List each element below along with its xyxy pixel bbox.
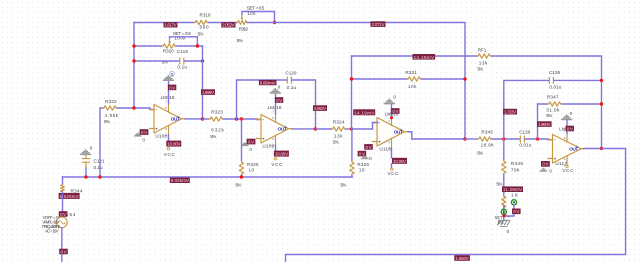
wire right rail x=202.5 down to U108 output bbox=[202, 46, 204, 119]
svg-text:79k: 79k bbox=[511, 167, 520, 172]
svg-text:5%: 5% bbox=[198, 32, 204, 37]
wire U108 out to R323 bbox=[203, 118, 210, 120]
wire R325 to input rail bbox=[241, 175, 243, 177]
svg-text:C128: C128 bbox=[549, 70, 560, 75]
svg-text:0V: 0V bbox=[248, 139, 254, 144]
voltage label 2.071V bbox=[371, 21, 386, 27]
svg-text:RF1: RF1 bbox=[478, 47, 487, 52]
junction U109 output node bbox=[314, 127, 317, 130]
svg-text:R319: R319 bbox=[239, 26, 248, 31]
svg-text:OUT: OUT bbox=[171, 117, 180, 123]
voltage label 9.025mV on input rail bbox=[170, 178, 190, 184]
svg-text:R347: R347 bbox=[547, 95, 559, 100]
junction C128 on output rail bbox=[600, 79, 603, 82]
wire U109 output to node bbox=[292, 128, 316, 130]
node 0V badge at U108 plus input bbox=[134, 129, 149, 142]
ground 0 above U117 bbox=[561, 111, 573, 120]
resistor R321 10k bbox=[405, 70, 421, 89]
wire R321 to U110 output rail bbox=[422, 78, 466, 80]
svg-text:1K: 1K bbox=[511, 192, 519, 197]
svg-text:13k: 13k bbox=[479, 61, 488, 66]
junction C121 on input rail bbox=[84, 175, 87, 178]
wire R326 to input rail end bbox=[351, 175, 353, 177]
resistor R326 10 bbox=[340, 161, 369, 188]
svg-text:4.95k: 4.95k bbox=[105, 113, 119, 118]
svg-text:R325: R325 bbox=[247, 162, 259, 167]
svg-text:SET = 0.5: SET = 0.5 bbox=[247, 6, 265, 11]
svg-text:5%: 5% bbox=[477, 67, 483, 72]
wire top net from left rail to R318 bbox=[134, 22, 194, 24]
wire RF1 row left segment bbox=[352, 55, 478, 57]
ground 0 above U110 bbox=[384, 94, 397, 104]
svg-text:0: 0 bbox=[393, 94, 396, 99]
wire R322 input vertical from rail bbox=[100, 108, 103, 177]
voltage label 10.00V at U110 VCC bbox=[392, 158, 407, 164]
junction summing node bbox=[350, 127, 353, 130]
svg-text:0: 0 bbox=[90, 145, 93, 150]
svg-text:13k: 13k bbox=[334, 134, 343, 139]
svg-text:0V: 0V bbox=[276, 98, 282, 103]
svg-text:SET: SET bbox=[495, 215, 503, 220]
node 0V badge on U117 V+ bbox=[566, 126, 574, 132]
voltage label 14.19mV at summing node bbox=[353, 109, 375, 115]
junction C120 feedback tap bbox=[235, 117, 238, 120]
voltage label 10.00V at U109 VCC bbox=[274, 151, 289, 157]
svg-text:0V: 0V bbox=[513, 209, 519, 214]
svg-text:OUT: OUT bbox=[394, 130, 403, 136]
voltage label 9.025mV at source bbox=[59, 193, 80, 199]
wire U109 out to R324 bbox=[316, 128, 332, 130]
wire C119 row right segment bbox=[185, 60, 203, 62]
wire C119 row left segment bbox=[134, 60, 179, 62]
node 0V badge on U109 V+ bbox=[275, 97, 283, 103]
ground earth below pot bbox=[498, 220, 511, 234]
junction R325 tap bbox=[240, 117, 243, 120]
svg-text:LM318: LM318 bbox=[268, 105, 282, 110]
voltage label 11.28mV bbox=[502, 186, 523, 192]
svg-text:C121: C121 bbox=[94, 158, 105, 163]
svg-text:OUT: OUT bbox=[569, 147, 578, 153]
voltage label 1.960V on bottom output wire bbox=[454, 255, 470, 261]
svg-text:14.19mV: 14.19mV bbox=[354, 110, 374, 115]
ground 0 above C121 bbox=[80, 145, 93, 155]
wire U117 output to rail junction bbox=[584, 148, 602, 150]
junction left rail / input node bbox=[132, 106, 135, 109]
voltage source V154 sine bbox=[56, 217, 67, 228]
node 0V badge below source bbox=[59, 249, 68, 255]
voltage label 10.00V at U108 VCC bbox=[166, 141, 181, 147]
junction left rail / C119 row bbox=[132, 59, 135, 62]
wire R323 to U109 minus input bbox=[224, 118, 262, 121]
svg-text:0V: 0V bbox=[169, 85, 175, 90]
wire R320 wiper loop bbox=[170, 37, 198, 46]
svg-text:0V: 0V bbox=[392, 109, 398, 114]
svg-text:5%: 5% bbox=[496, 181, 502, 186]
svg-text:R345: R345 bbox=[481, 130, 493, 135]
svg-text:R318: R318 bbox=[200, 12, 211, 17]
svg-text:0.01u: 0.01u bbox=[519, 143, 531, 148]
junction wiper-return on top net bbox=[273, 21, 276, 24]
op-amp U108 LM318 bbox=[149, 95, 186, 139]
voltage label 1.969V bbox=[201, 89, 215, 95]
node 0V badge at pot wiper bbox=[512, 209, 521, 215]
resistor R323 632k bbox=[209, 109, 225, 139]
svg-text:18.9k: 18.9k bbox=[481, 143, 495, 148]
wire U108 output to feedback rail junction bbox=[185, 118, 203, 120]
svg-text:U117: U117 bbox=[555, 161, 567, 166]
svg-text:VCC: VCC bbox=[562, 168, 574, 173]
wire U110 output node to R345 bbox=[465, 138, 478, 140]
svg-text:5%: 5% bbox=[104, 119, 110, 124]
svg-text:VCC: VCC bbox=[271, 162, 283, 167]
svg-text:5%: 5% bbox=[235, 182, 241, 187]
svg-text:0: 0 bbox=[369, 156, 372, 161]
junction R321 on U110 output rail bbox=[463, 77, 466, 80]
svg-text:OUT: OUT bbox=[278, 127, 287, 133]
junction R347 tap node bbox=[536, 137, 539, 140]
power VCC below U108 bbox=[164, 148, 176, 157]
source parameter text VOFF/VAMPL/FREQ/AC bbox=[42, 215, 60, 234]
wire R320 row from rail bbox=[134, 45, 162, 47]
op-amp U109 LM318 bbox=[256, 105, 293, 149]
wire C128 to output rail bbox=[554, 79, 602, 81]
svg-text:R344: R344 bbox=[71, 188, 83, 193]
wire R348 branch down bbox=[503, 139, 505, 160]
svg-text:1.969V: 1.969V bbox=[202, 90, 214, 95]
wire U109 V+ pin to ground bbox=[275, 93, 277, 113]
svg-text:14.19mV: 14.19mV bbox=[414, 55, 434, 60]
svg-text:0V: 0V bbox=[542, 162, 548, 167]
source designator V154 bbox=[66, 212, 76, 217]
svg-text:0.1u: 0.1u bbox=[287, 85, 297, 90]
wire R344 to source bbox=[62, 192, 64, 217]
svg-text:0V: 0V bbox=[567, 126, 573, 131]
capacitor C121 0.1u branch bbox=[82, 155, 105, 177]
svg-text:VCC: VCC bbox=[164, 152, 176, 157]
node 0V badge at U110 plus input bbox=[358, 144, 373, 161]
svg-text:2.052V: 2.052V bbox=[222, 23, 234, 28]
svg-text:AC = 10V: AC = 10V bbox=[45, 229, 59, 234]
svg-text:LM318: LM318 bbox=[161, 95, 175, 100]
potentiometer R320 SET=0.5 100k bbox=[162, 31, 191, 65]
op-amp U110 LM318 bbox=[372, 112, 409, 152]
svg-text:9.025mV: 9.025mV bbox=[171, 178, 189, 183]
junction left rail / R320 row bbox=[132, 44, 135, 47]
svg-text:R326: R326 bbox=[357, 162, 369, 167]
wire final output loop to bottom edge bbox=[286, 149, 626, 262]
svg-text:0: 0 bbox=[249, 147, 252, 152]
resistor R322 4.95k bbox=[103, 99, 119, 124]
wire RF1 row right segment to output rail bbox=[492, 56, 602, 149]
voltage label 1.960V on R347 leg bbox=[537, 121, 552, 127]
capacitor C119 0.1u bbox=[177, 49, 188, 70]
svg-text:5%: 5% bbox=[546, 113, 552, 118]
wire C129 to U117 minus input bbox=[525, 138, 553, 141]
svg-text:10.00V: 10.00V bbox=[275, 152, 288, 157]
svg-text:154: 154 bbox=[66, 212, 76, 217]
svg-text:U109: U109 bbox=[262, 144, 274, 149]
svg-text:VCC: VCC bbox=[387, 171, 399, 176]
wire U110 V+ pin to ground bbox=[391, 104, 393, 117]
svg-text:5%: 5% bbox=[498, 220, 504, 225]
junction R325 on input rail bbox=[240, 175, 243, 178]
wire left rail x=134 bbox=[133, 23, 135, 109]
wire R347 to output rail bbox=[562, 103, 602, 105]
wire R325 branch down bbox=[241, 119, 243, 161]
svg-text:10k: 10k bbox=[408, 84, 417, 89]
power VCC below U109 bbox=[271, 158, 283, 167]
probe marker green on pot bottom bbox=[501, 209, 506, 214]
resistor R318 bbox=[194, 12, 211, 36]
wire U110 output jog to output rail bbox=[408, 132, 465, 139]
wire C120 feedback rail up bbox=[237, 80, 288, 119]
junction R322 branch on input rail bbox=[98, 175, 101, 178]
ground 0 above U109 bbox=[270, 85, 282, 94]
wire R324 to summing node bbox=[346, 128, 352, 130]
svg-text:5%: 5% bbox=[340, 182, 346, 187]
svg-text:10.00V: 10.00V bbox=[393, 159, 406, 164]
svg-text:R323: R323 bbox=[211, 109, 223, 114]
svg-text:2.062V: 2.062V bbox=[314, 106, 326, 111]
svg-text:5%: 5% bbox=[333, 140, 339, 145]
voltage label 14.19mV on RF1 row bbox=[413, 54, 436, 60]
voltage label 1.617V bbox=[164, 22, 178, 28]
wire summing node vertical (RF1/R321 tap) bbox=[351, 56, 353, 129]
svg-text:5%: 5% bbox=[210, 134, 216, 139]
wire R320 row to right rail bbox=[177, 45, 203, 47]
capacitor C128 0.01u bbox=[549, 70, 562, 89]
svg-text:0: 0 bbox=[549, 168, 552, 173]
svg-text:0: 0 bbox=[507, 229, 510, 234]
junction U110 output node on rail bbox=[463, 137, 466, 140]
svg-text:0: 0 bbox=[142, 137, 145, 142]
ground 0 above U108 bbox=[163, 71, 175, 81]
wire R348 to pot bbox=[503, 175, 505, 196]
svg-text:C119: C119 bbox=[177, 49, 188, 54]
resistor R345 18.9k bbox=[477, 130, 494, 156]
svg-text:1.960V: 1.960V bbox=[538, 122, 550, 127]
junction R320 wiper on row bbox=[196, 44, 199, 47]
voltage label 2.062V bbox=[313, 105, 327, 111]
svg-text:0: 0 bbox=[570, 111, 573, 116]
svg-text:0V: 0V bbox=[366, 145, 372, 150]
svg-text:632k: 632k bbox=[211, 128, 224, 133]
junction R348/C128 node bbox=[502, 137, 505, 140]
svg-text:0V: 0V bbox=[141, 130, 147, 135]
junction pot wiper node bbox=[502, 214, 505, 217]
svg-text:0: 0 bbox=[278, 85, 281, 90]
junction U108 output node bbox=[201, 117, 204, 120]
wire U109 V- pin to VCC bbox=[275, 145, 277, 151]
wire U108 V- pin to VCC bbox=[168, 135, 170, 141]
wire U117 V+ pin to ground bbox=[566, 119, 568, 133]
wire bottom input rail 9.025mV bbox=[63, 176, 353, 178]
potentiometer 1K bbox=[495, 192, 519, 219]
svg-text:C129: C129 bbox=[519, 130, 530, 135]
junction U110 V+ pin bbox=[390, 116, 393, 119]
svg-text:1.723V: 1.723V bbox=[504, 110, 516, 115]
resistor R344 (series source resistor) bbox=[61, 185, 83, 194]
svg-text:0.1u: 0.1u bbox=[94, 165, 103, 170]
svg-text:9.054mV: 9.054mV bbox=[260, 81, 276, 86]
power VCC below U117 bbox=[562, 165, 574, 173]
wire R345 to node bbox=[492, 138, 520, 140]
wire summing node to U110 minus input with jog bbox=[352, 123, 378, 130]
wire summing node to R326 bbox=[351, 129, 353, 161]
svg-text:5%: 5% bbox=[477, 150, 483, 155]
svg-text:31.9k: 31.9k bbox=[546, 108, 560, 113]
svg-text:10: 10 bbox=[359, 168, 365, 173]
svg-text:1.617V: 1.617V bbox=[165, 23, 177, 28]
wire R318 to R319 bbox=[209, 22, 238, 24]
resistor R348 79k bbox=[496, 160, 523, 186]
resistor R324 13k bbox=[332, 119, 347, 144]
svg-text:R321: R321 bbox=[405, 70, 417, 75]
svg-text:590: 590 bbox=[200, 25, 209, 30]
wire U110 V- pin to VCC bbox=[391, 148, 393, 158]
capacitor C129 0.01u bbox=[519, 130, 532, 148]
wire top net from R319 to right corner, down to U110 output node bbox=[247, 23, 465, 140]
svg-text:10: 10 bbox=[249, 168, 255, 173]
op-amp U117 LM318 bbox=[548, 126, 585, 167]
svg-text:2.071V: 2.071V bbox=[372, 22, 385, 27]
capacitor C120 0.1u bbox=[285, 71, 296, 90]
svg-text:C120: C120 bbox=[285, 71, 296, 76]
junction R321 tap on summing vertical bbox=[350, 77, 353, 80]
svg-text:U108: U108 bbox=[155, 134, 167, 139]
voltage label 9.054mV bbox=[259, 80, 277, 86]
svg-text:R324: R324 bbox=[333, 119, 345, 124]
node 0V badge at U117 plus input bbox=[539, 161, 552, 173]
wire U108 V+ pin to ground bbox=[168, 81, 170, 104]
svg-text:0V: 0V bbox=[359, 152, 365, 157]
svg-text:U110: U110 bbox=[379, 147, 391, 152]
wire R347 feedback loop up bbox=[538, 104, 548, 139]
junction R347 on output rail bbox=[600, 102, 603, 105]
svg-text:10.00V: 10.00V bbox=[167, 142, 180, 147]
svg-text:R348: R348 bbox=[511, 161, 523, 166]
junction right rail / C119 row bbox=[201, 59, 204, 62]
resistor RF1 13k feedback bbox=[477, 47, 492, 71]
svg-text:1.960V: 1.960V bbox=[456, 256, 469, 261]
wire R322 to U108 minus input bbox=[117, 108, 155, 110]
svg-text:0V: 0V bbox=[61, 249, 67, 254]
node 0V badge on U110 V+ bbox=[391, 108, 399, 114]
probe marker green wiper bbox=[504, 200, 517, 216]
resistor R325 10 bbox=[235, 161, 259, 188]
node 0V badge on U108 V+ bbox=[168, 85, 176, 91]
wire R319 wiper loop bbox=[242, 12, 275, 23]
svg-text:R322: R322 bbox=[105, 99, 117, 104]
wire source branch down from rail bbox=[62, 177, 64, 185]
wire C128 loop up from R348 node bbox=[504, 80, 549, 139]
wire source minus down to bottom edge bbox=[61, 228, 63, 262]
svg-text:0.1u: 0.1u bbox=[177, 65, 187, 70]
node 0V badge at U109 plus input bbox=[241, 139, 256, 152]
wire R321 row bbox=[352, 78, 408, 80]
voltage label 2.052V bbox=[221, 22, 235, 28]
power VCC below U110 bbox=[387, 164, 399, 176]
node V+ 0V badge at source bbox=[59, 211, 68, 217]
wire pot bottom to ground bbox=[503, 206, 505, 221]
svg-text:R320: R320 bbox=[163, 49, 174, 54]
junction U117 output node bbox=[600, 147, 603, 150]
voltage label 1.723V bbox=[503, 109, 517, 115]
potentiometer R319 bbox=[237, 6, 265, 43]
svg-text:5%: 5% bbox=[237, 38, 243, 43]
wire C120 to right rail down to U109 output bbox=[292, 80, 316, 129]
resistor R347 31.9k bbox=[546, 95, 562, 118]
svg-text:0.01u: 0.01u bbox=[549, 84, 561, 89]
